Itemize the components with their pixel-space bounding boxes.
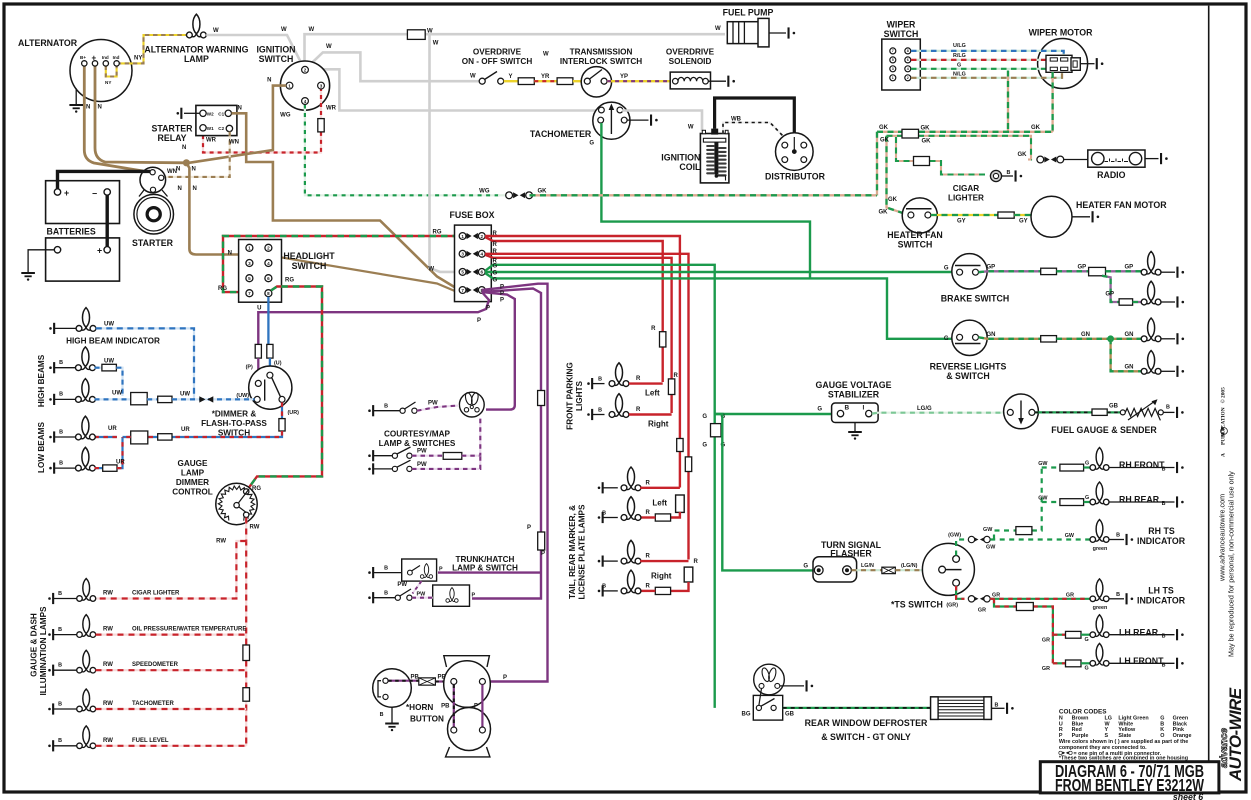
svg-text:OVERDRIVE: OVERDRIVE [666, 48, 715, 57]
wire GB defroster switch to grid [783, 707, 931, 709]
svg-text:PB: PB [441, 704, 450, 710]
wire W ignition to overdrive switch [306, 52, 481, 81]
svg-text:ILLUMINATION LAMPS: ILLUMINATION LAMPS [39, 606, 48, 696]
svg-text:7: 7 [461, 288, 464, 293]
wire P fuse t8 to dimmer switch [258, 292, 489, 345]
svg-text:SPEEDOMETER: SPEEDOMETER [132, 662, 179, 668]
brake switch [952, 254, 987, 289]
svg-text:W: W [715, 26, 721, 32]
svg-text:Left: Left [645, 388, 660, 397]
wire UW high beams to dimmer [95, 398, 131, 400]
svg-text:−: − [92, 189, 97, 199]
svg-text:G: G [1085, 495, 1089, 501]
svg-text:CIGAR LIGHTER: CIGAR LIGHTER [132, 591, 180, 597]
svg-text:2: 2 [481, 234, 484, 239]
svg-text:GW: GW [1038, 461, 1048, 467]
svg-text:Purple: Purple [1072, 733, 1089, 739]
svg-text:LH FRONT: LH FRONT [1119, 656, 1164, 666]
fuse U into dimmer [267, 344, 273, 358]
connector on tail right trunk [685, 457, 691, 472]
svg-text:(GR): (GR) [946, 603, 958, 609]
wire PW switch2 to lamp wire [412, 456, 480, 469]
svg-text:RH REAR: RH REAR [1119, 495, 1160, 505]
ground tail right marker lamp [598, 560, 601, 563]
svg-text:*TS SWITCH: *TS SWITCH [891, 600, 943, 610]
svg-text:INDICATOR: INDICATOR [1137, 536, 1186, 546]
wire WG ignition t4 to bowtie [305, 105, 500, 196]
wire N alternator + to starter junction [95, 65, 186, 163]
svg-text:OVERDRIVE: OVERDRIVE [473, 48, 522, 57]
batteries [46, 181, 120, 224]
svg-text:RG: RG [433, 230, 442, 236]
wire P fuse t8 to horn [482, 284, 548, 682]
wire YR connector to interlock switch [534, 80, 557, 82]
svg-text:LH TS: LH TS [1148, 586, 1174, 596]
svg-text:B: B [58, 738, 62, 744]
svg-text:GK: GK [1018, 152, 1028, 158]
svg-text:B: B [1162, 634, 1166, 640]
lamp high beam indicator [76, 308, 96, 332]
wire GP to brake right lamp [1102, 276, 1119, 302]
svg-text:OIL PRESSURE/WATER TEMPERATURE: OIL PRESSURE/WATER TEMPERATURE [132, 627, 246, 633]
wire GW branch up to RH front-rear [994, 468, 1042, 540]
wire R left parking [629, 382, 663, 384]
svg-text:UW: UW [104, 359, 114, 365]
svg-text:REVERSE LIGHTS: REVERSE LIGHTS [930, 362, 1007, 372]
steering column lower [448, 708, 491, 751]
lamp high beam 1 [76, 347, 96, 371]
alternator [70, 40, 132, 102]
svg-text:HEADLIGHT: HEADLIGHT [283, 251, 335, 261]
wire P fuse t8 to courtesy lamp [482, 292, 515, 410]
svg-text:GAUGE & DASH: GAUGE & DASH [30, 613, 39, 677]
svg-text:(P): (P) [246, 365, 253, 371]
svg-text:C1: C1 [218, 112, 224, 117]
lamp tail left marker [621, 467, 641, 491]
svg-text:G: G [944, 266, 949, 272]
svg-text:RG: RG [285, 278, 294, 284]
svg-text:2: 2 [304, 68, 307, 73]
svg-text:G: G [702, 414, 707, 420]
svg-text:Left: Left [652, 499, 667, 508]
ground left parking lamp [587, 382, 590, 385]
svg-text:+: + [64, 188, 69, 198]
svg-text:RG: RG [252, 486, 261, 492]
svg-text:B: B [598, 407, 602, 413]
svg-text:P: P [500, 291, 504, 297]
starter motor [139, 190, 168, 197]
svg-text:Right: Right [651, 572, 672, 581]
svg-text:N: N [228, 251, 232, 257]
svg-text:R: R [493, 242, 498, 248]
wire P fuse t8 to trunk-hatch lamps [472, 289, 541, 599]
starter relay [196, 105, 237, 135]
svg-text:DISTRIBUTOR: DISTRIBUTOR [765, 172, 826, 182]
svg-text:ALTERNATOR: ALTERNATOR [18, 38, 78, 48]
svg-text:DIMMER: DIMMER [176, 478, 209, 487]
wire R fuse t4 to right parking trunk [485, 255, 672, 413]
wire PW courtesy switch to lamp [417, 406, 459, 411]
svg-text:2: 2 [907, 76, 909, 80]
svg-text:R: R [646, 510, 651, 516]
svg-text:B: B [58, 627, 62, 633]
fuel sender rheostat [1120, 410, 1125, 415]
headlight switch [239, 240, 282, 303]
svg-text:GP: GP [1125, 265, 1134, 271]
svg-text:8: 8 [907, 49, 909, 53]
svg-text:W: W [688, 125, 694, 131]
svg-text:(UW): (UW) [236, 393, 249, 399]
svg-text:3: 3 [892, 67, 894, 71]
svg-text:R: R [651, 326, 656, 332]
lamp brake left [1141, 251, 1161, 275]
svg-text:+: + [92, 54, 97, 63]
svg-text:G: G [589, 141, 594, 147]
ground tail right lamp [598, 590, 601, 593]
svg-text:RW: RW [103, 627, 113, 633]
wire RG headlight t8 to gauge dimmer [248, 287, 323, 490]
svg-text:GN: GN [1125, 365, 1134, 371]
svg-text:A PUBLICATION © 2005: A PUBLICATION © 2005 [1220, 387, 1227, 457]
svg-text:G: G [1085, 666, 1089, 672]
svg-text:CONTROL: CONTROL [172, 488, 212, 497]
wire UR dimmer to low beams [281, 402, 283, 418]
svg-text:BG: BG [742, 711, 751, 717]
connector bowtie WG to GK [498, 194, 506, 196]
svg-text:GP: GP [1105, 291, 1114, 297]
wire G tachometer down to reverse circuit [601, 123, 810, 278]
heater fan motor [1031, 196, 1072, 237]
wire R tail left lamp [671, 512, 680, 518]
junction node GN [1107, 335, 1114, 342]
svg-text:& SWITCH - GT ONLY: & SWITCH - GT ONLY [821, 732, 911, 742]
svg-text:STABILIZER: STABILIZER [828, 390, 880, 400]
lamp TACHOMETER [77, 689, 96, 712]
wire N alternator B+ to starter junction [84, 65, 143, 171]
svg-text:B: B [384, 404, 388, 410]
svg-text:LIGHTS: LIGHTS [575, 380, 584, 411]
svg-text:COIL: COIL [679, 162, 701, 172]
svg-text:B: B [845, 405, 850, 412]
svg-text:W: W [433, 41, 439, 47]
fuse P into dimmer [255, 344, 261, 358]
svg-text:LAMP & SWITCH: LAMP & SWITCH [452, 564, 518, 573]
svg-text:FRONT PARKING: FRONT PARKING [566, 362, 575, 430]
lamp right parking [609, 394, 629, 418]
svg-text:G: G [493, 264, 498, 270]
svg-text:(GW): (GW) [948, 533, 961, 539]
wire N junction branch to fuse box t7 [264, 255, 456, 292]
ground alternator [75, 89, 77, 105]
ground tachometer [627, 119, 649, 121]
svg-text:SWITCH: SWITCH [898, 240, 933, 250]
svg-text:BATTERIES: BATTERIES [47, 227, 96, 237]
LH rear row [1053, 634, 1066, 636]
wire RW gauge dimmer to illumination lamps [245, 518, 247, 746]
svg-text:GK: GK [879, 210, 889, 216]
svg-text:Ind: Ind [113, 55, 120, 60]
svg-text:FUEL PUMP: FUEL PUMP [723, 8, 774, 18]
svg-text:G: G [493, 271, 498, 277]
svg-text:BUTTON: BUTTON [410, 715, 444, 724]
svg-text:GN: GN [1125, 332, 1134, 338]
svg-text:GK: GK [880, 138, 890, 144]
wire N ignition t1 to junction [189, 86, 286, 163]
svg-text:3: 3 [248, 261, 251, 266]
wire N junction to headlight switch t4 [186, 163, 268, 260]
svg-text:5: 5 [248, 276, 251, 281]
svg-text:GP: GP [987, 265, 996, 271]
svg-text:UW: UW [112, 391, 122, 397]
svg-text:PW: PW [417, 462, 427, 468]
svg-text:RW: RW [103, 591, 113, 597]
svg-text:UR: UR [181, 427, 190, 433]
svg-text:U/LG: U/LG [953, 43, 966, 49]
svg-text:GP: GP [1078, 265, 1087, 271]
svg-text:N: N [182, 145, 186, 151]
wire NY alternator to warning lamp [117, 35, 187, 63]
svg-text:B: B [1162, 501, 1166, 507]
ground oil pressure/water temperature lamp [48, 633, 51, 636]
svg-text:B: B [380, 712, 384, 718]
svg-text:RH FRONT: RH FRONT [1119, 460, 1165, 470]
wire W fuel pump line to ignition [305, 34, 726, 68]
svg-text:N: N [192, 167, 196, 173]
svg-text:LAMP & SWITCHES: LAMP & SWITCHES [379, 439, 456, 448]
svg-text:RH TS: RH TS [1148, 526, 1175, 536]
svg-text:B: B [58, 701, 62, 707]
svg-text:P: P [527, 525, 531, 531]
reverse lights switch [952, 320, 987, 355]
wire K coil HT to distributor [715, 98, 795, 134]
ground tail left lamp [598, 516, 601, 519]
svg-text:GW: GW [986, 545, 996, 551]
courtesy map lamp [459, 392, 484, 417]
svg-text:6: 6 [267, 276, 270, 281]
lamp left parking [609, 363, 629, 387]
svg-text:RW: RW [103, 738, 113, 744]
svg-text:R: R [694, 559, 699, 565]
svg-text:B: B [1162, 662, 1166, 668]
svg-text:GW: GW [1065, 533, 1075, 539]
map lamp switch 1 [368, 454, 371, 457]
svg-text:SWITCH: SWITCH [292, 261, 327, 271]
distributor [776, 133, 814, 171]
svg-text:R/LG: R/LG [953, 53, 966, 59]
license-hatch lamp box [433, 585, 470, 606]
wire GP brake switch to lamps [979, 270, 1041, 273]
svg-text:GR: GR [992, 593, 1000, 599]
lamp low beam 1 [76, 416, 96, 440]
svg-text:R: R [493, 231, 498, 237]
svg-text:GN: GN [1081, 332, 1090, 338]
svg-text:B: B [58, 591, 62, 597]
wire R tail right lamp [671, 582, 689, 591]
wire GY heater switch to motor [931, 214, 998, 216]
svg-text:W: W [543, 52, 549, 58]
svg-text:LICENSE PLATE LAMPS: LICENSE PLATE LAMPS [578, 504, 587, 599]
svg-text:B: B [602, 584, 606, 590]
svg-text:SWITCH: SWITCH [884, 29, 919, 39]
wire U headlight t8 to dimmer [267, 297, 269, 345]
svg-text:C2: C2 [218, 126, 224, 131]
fuse on WR wire [318, 119, 324, 132]
connector on right parking trunk [668, 379, 674, 395]
svg-text:GY: GY [957, 219, 966, 225]
svg-text:WG: WG [280, 113, 291, 119]
wire GW bowtie to RH TS indicator [990, 538, 1092, 540]
svg-text:+: + [97, 246, 102, 256]
wire G fuse t6 to long vertical [485, 265, 715, 708]
svg-text:W2: W2 [207, 112, 214, 117]
svg-text:4: 4 [304, 99, 307, 104]
svg-text:G: G [493, 278, 498, 284]
svg-text:B: B [384, 566, 388, 572]
lamp RH front [1090, 448, 1109, 471]
wire GK to heater fan switch [887, 136, 906, 214]
svg-text:W1: W1 [207, 126, 214, 131]
svg-text:W: W [281, 27, 287, 33]
svg-text:RW: RW [103, 701, 113, 707]
svg-text:*These two switches are combin: *These two switches are combined in one … [1059, 755, 1188, 761]
lamp FUEL LEVEL [77, 726, 96, 749]
svg-text:G: G [817, 407, 822, 413]
wire PW hatch switch to lamps [412, 597, 433, 599]
horn button [373, 669, 412, 708]
svg-text:(UR): (UR) [288, 410, 300, 416]
wire U/LG wiper switch to motor [911, 51, 1064, 55]
lamp high beam 2 [76, 379, 96, 403]
svg-text:GY: GY [1019, 219, 1028, 225]
svg-text:TRANSMISSION: TRANSMISSION [570, 48, 633, 57]
ground low beam 1 [49, 436, 52, 439]
svg-text:GK: GK [538, 189, 548, 195]
svg-text:W: W [428, 267, 434, 273]
svg-text:GK: GK [879, 125, 889, 131]
svg-text:GK: GK [922, 139, 932, 145]
ground heater fan motor [1072, 216, 1090, 218]
svg-text:LH REAR: LH REAR [1119, 627, 1159, 637]
wire GK wiper G branch down [1007, 71, 1009, 132]
wire N relay C1 to fuse box [232, 113, 457, 288]
wire R fuse t2 to left parking trunk [485, 237, 663, 382]
svg-text:BRAKE SWITCH: BRAKE SWITCH [941, 294, 1009, 304]
svg-text:LG/N: LG/N [861, 563, 874, 569]
svg-text:R: R [646, 480, 651, 486]
svg-text:MTP: MTP [1220, 426, 1225, 436]
wire PB steering upper to lower [453, 685, 455, 728]
svg-text:B: B [598, 376, 602, 382]
radio connector bowtie [1028, 158, 1031, 160]
svg-text:NY: NY [105, 80, 111, 85]
ground tachometer lamp [48, 708, 51, 711]
wire P steering upper to lower [481, 685, 483, 728]
wire GR branch down to LH rear-front [994, 599, 1053, 664]
dimmer and flash-to-pass switch [249, 366, 292, 409]
svg-text:1: 1 [892, 76, 894, 80]
ground battery2 [28, 250, 54, 272]
cable battery1 to battery2 [105, 195, 108, 246]
starter solenoid [140, 167, 166, 193]
svg-text:O: O [1160, 733, 1164, 739]
lamp low beam 2 [76, 447, 96, 471]
svg-text:B: B [1166, 405, 1170, 411]
svg-text:green: green [1093, 605, 1108, 611]
ground low beam 2 [49, 467, 52, 470]
svg-text:G: G [803, 564, 808, 570]
svg-text:B: B [59, 360, 63, 366]
wiper switch [882, 39, 921, 90]
svg-text:SOLENOID: SOLENOID [669, 57, 712, 66]
rear window defroster lamp [754, 664, 785, 695]
svg-text:N: N [178, 186, 182, 192]
svg-text:2: 2 [267, 246, 270, 251]
wire RW fuel level [96, 745, 247, 747]
wire R tail left marker [640, 487, 680, 489]
svg-text:UR: UR [116, 460, 125, 466]
svg-text:Ind: Ind [102, 55, 109, 60]
steering column upper [444, 656, 490, 667]
wire YP interlock to overdrive solenoid [607, 80, 672, 82]
svg-text:CIGAR: CIGAR [953, 184, 979, 193]
wire GK horizontal main [877, 131, 1053, 133]
svg-text:N: N [98, 105, 102, 111]
svg-text:YR: YR [541, 74, 550, 80]
lamp OIL PRESSURE/WATER TEMPERATURE [77, 615, 96, 638]
wire Y overdrive switch to connector [504, 80, 519, 82]
svg-text:5: 5 [461, 270, 464, 275]
svg-text:W: W [309, 27, 315, 33]
svg-text:WR: WR [326, 106, 337, 112]
wire GN to reverse right lamp [1111, 339, 1144, 372]
ground cigar lighter lamp [48, 597, 51, 600]
hatch lamp switch [368, 596, 371, 599]
wire R fuse t2 to tail left trunk [485, 236, 680, 488]
svg-text:green: green [1093, 546, 1108, 552]
lamp tail right [621, 570, 641, 594]
gauge lamp dimmer control rheostat [216, 483, 257, 524]
wire GR bowtie to LH TS indicator [990, 598, 1092, 600]
ground right parking lamp [587, 413, 590, 416]
svg-text:B: B [602, 510, 606, 516]
wire W warning lamp to ignition switch [206, 35, 303, 68]
svg-text:GK: GK [921, 126, 931, 132]
svg-text:W: W [326, 44, 332, 50]
svg-text:B: B [995, 703, 999, 709]
svg-text:LOW BEAMS: LOW BEAMS [37, 421, 46, 472]
svg-text:HIGH BEAMS: HIGH BEAMS [37, 354, 46, 407]
svg-text:YP: YP [620, 74, 628, 80]
svg-text:G: G [1085, 637, 1089, 643]
lamp CIGAR LIGHTER [77, 579, 96, 602]
wire W tach to ignition coil [622, 111, 706, 134]
connector on G vertical [711, 424, 722, 437]
svg-text:4: 4 [907, 67, 909, 71]
lamp reverse right [1141, 351, 1161, 375]
wire WR ignition t3 to starter relay W1 [320, 87, 322, 119]
connector on trunk P wire [538, 391, 545, 406]
wire RW speedometer [96, 669, 247, 671]
svg-text:May be reproduced for personal: May be reproduced for personal, non-comm… [1227, 471, 1236, 657]
svg-text:WIPER: WIPER [887, 20, 916, 30]
svg-text:HIGH BEAM INDICATOR: HIGH BEAM INDICATOR [66, 337, 160, 346]
svg-text:PW: PW [428, 401, 438, 407]
svg-text:STARTER: STARTER [132, 238, 174, 248]
sidebar divider [1208, 6, 1210, 791]
ground high beam 1 [49, 366, 52, 369]
wire UW high beam 1 [95, 367, 102, 369]
svg-text:LG/G: LG/G [917, 406, 932, 412]
